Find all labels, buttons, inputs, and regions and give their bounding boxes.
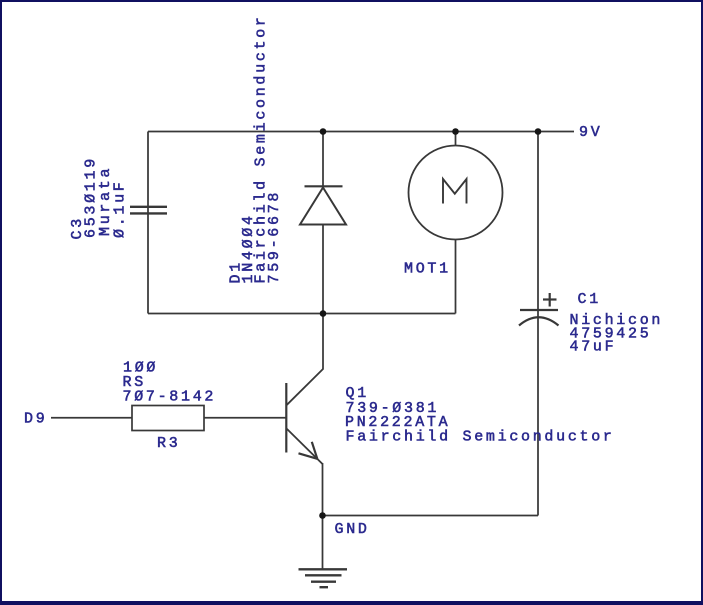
svg-text:R3: R3	[157, 435, 180, 452]
svg-text:47uF: 47uF	[570, 339, 617, 356]
svg-text:C1: C1	[578, 291, 601, 308]
svg-text:7Ø7-8142: 7Ø7-8142	[123, 389, 217, 406]
svg-text:GND: GND	[335, 521, 370, 538]
svg-text:D9: D9	[24, 411, 47, 428]
svg-text:Ø.1uF: Ø.1uF	[111, 179, 128, 238]
svg-text:759-6678: 759-6678	[266, 190, 283, 284]
svg-text:9V: 9V	[579, 124, 602, 141]
svg-text:MOT1: MOT1	[404, 261, 451, 278]
svg-text:Fairchild Semiconductor: Fairchild Semiconductor	[346, 429, 615, 446]
